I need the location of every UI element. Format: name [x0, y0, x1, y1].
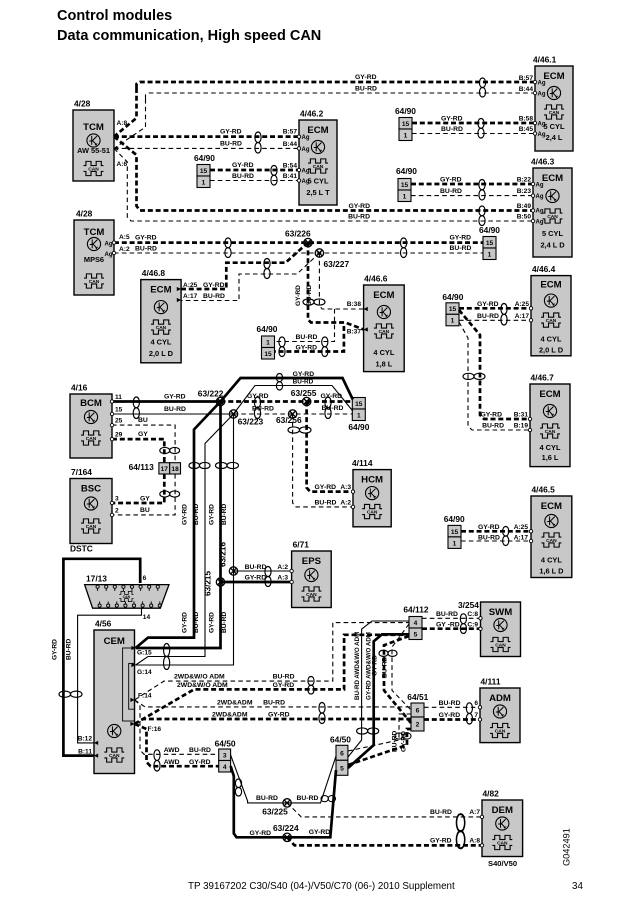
page number [572, 881, 583, 892]
svg-text:14: 14 [143, 614, 151, 621]
svg-text:5 CYL: 5 CYL [544, 122, 565, 131]
svg-text:S40/V50: S40/V50 [488, 859, 517, 868]
label 29 BCM [115, 432, 123, 439]
wire GY-RD top bus to ECM 4/46.1 B:57 [137, 82, 536, 88]
svg-text:BU-RD: BU-RD [440, 188, 462, 195]
svg-text:GY: GY [140, 496, 150, 503]
label BU-RD 64/90-3 [440, 188, 462, 195]
control module HCM 4/114 [352, 458, 391, 527]
svg-text:BU-RD: BU-RD [221, 504, 228, 525]
svg-text:BU-RD: BU-RD [293, 379, 314, 386]
wire BU-RD 63/223 diag to left vertical [136, 414, 234, 665]
svg-text:6: 6 [143, 575, 147, 582]
svg-text:CAN: CAN [156, 325, 167, 331]
label F:16 [148, 726, 162, 733]
svg-text:GY: GY [138, 431, 148, 438]
twisted pair after BCM [133, 397, 139, 419]
svg-text:BU-RD: BU-RD [189, 747, 211, 754]
svg-text:GY-RD: GY-RD [439, 712, 461, 719]
svg-text:B:31: B:31 [514, 412, 529, 419]
svg-text:15: 15 [115, 407, 123, 414]
svg-text:1: 1 [266, 339, 270, 346]
wire BU-RD AWD vertical to 64/112 pin4 [348, 621, 409, 757]
label BU-RD vertical upper 197.8 [193, 504, 200, 525]
svg-text:64/90: 64/90 [396, 166, 417, 176]
svg-text:TP 39167202 C30/S40 (04-)/V50/: TP 39167202 C30/S40 (04-)/V50/C70 (06-) … [188, 881, 455, 892]
svg-text:B:12: B:12 [78, 736, 93, 743]
label GY-RD v2 [273, 682, 295, 689]
wire GY-RD TCM A:8 to ECM 4/46.2 B:57 [114, 135, 299, 138]
svg-text:A:3: A:3 [340, 484, 351, 491]
label AWD 1 [164, 747, 180, 754]
svg-text:ECM: ECM [540, 280, 561, 291]
label BU-RD 63/225 r [297, 795, 319, 802]
control module ECM 4/46.3 [531, 157, 572, 258]
label BU-RD plateau [293, 379, 314, 386]
svg-text:2WD&W/O ADM: 2WD&W/O ADM [177, 682, 228, 689]
label 63/226 [285, 229, 311, 239]
twisted pair verticals right pair [216, 462, 239, 468]
wire BU 64/113 pin18 to BSC pin2 [112, 474, 175, 515]
17/13 pin 14 label [143, 614, 151, 621]
label GY-RD drop rot [295, 285, 302, 306]
wire BU-RD 64/50 to 64/51 bottom [348, 714, 411, 751]
label 2 BSC [115, 508, 119, 515]
label AWD 2 [164, 759, 180, 766]
svg-text:29: 29 [115, 432, 123, 439]
wire BU-RD F:14 2WDWOADM [135, 623, 409, 700]
svg-text:BU-RD: BU-RD [245, 564, 267, 571]
svg-text:GY-RD: GY-RD [296, 345, 318, 352]
svg-text:C:8: C:8 [467, 611, 478, 618]
svg-text:GY-RD: GY-RD [232, 162, 254, 169]
svg-text:B:57: B:57 [519, 75, 534, 82]
label BU-RD 4/46.5 [478, 535, 500, 542]
label Ag 4/46.3 186.5 [536, 183, 544, 189]
svg-text:4/56: 4/56 [95, 619, 112, 629]
connector 64/90 (to ECM 4/46.4) [442, 292, 463, 326]
twisted pair on plateau [276, 374, 282, 391]
svg-text:4/28: 4/28 [76, 209, 93, 219]
splice 63/226 [304, 238, 312, 246]
BSC caption DSTC [70, 544, 93, 554]
label F:14 [138, 693, 152, 700]
svg-text:4/46.6: 4/46.6 [364, 274, 388, 284]
svg-text:ECM: ECM [542, 173, 563, 184]
wire GY-RD 63/222 straight down [136, 402, 221, 649]
label A:17 4/46.8 [183, 293, 198, 300]
svg-text:BU-RD: BU-RD [193, 612, 200, 633]
svg-text:11: 11 [115, 394, 122, 401]
label A:8 TCM [117, 120, 128, 127]
CEM connector sub-block inner [129, 663, 135, 709]
svg-text:CAN: CAN [313, 164, 324, 170]
svg-text:Ag: Ag [302, 147, 310, 153]
svg-text:64/90: 64/90 [444, 514, 465, 524]
svg-text:A:17: A:17 [514, 535, 529, 542]
wire BU BCM pin25 to 64/113 pin18 [112, 425, 175, 463]
svg-text:BU-RD: BU-RD [441, 126, 463, 133]
label A:2 HCM [340, 500, 351, 507]
twisted pair before 4/46.1 top [479, 78, 485, 97]
label C:9 SWM [467, 622, 478, 629]
wire BU-RD 64/90 to ECM 4/46.1 B:45 [412, 133, 535, 135]
svg-text:1: 1 [202, 179, 206, 186]
pin contact circles [110, 80, 536, 847]
svg-text:GY -RD: GY -RD [436, 622, 460, 629]
svg-text:4 CYL: 4 CYL [150, 338, 171, 347]
svg-text:GY-RD: GY-RD [135, 235, 157, 242]
label GY-RD bus r [321, 393, 343, 400]
wire GY-RD 63/224 to DEM A:8 [287, 837, 482, 845]
wire BU-RD 63/223 straight down [136, 414, 234, 665]
svg-text:64/112: 64/112 [403, 605, 428, 615]
connector 64/113 [129, 462, 181, 474]
svg-text:7/164: 7/164 [71, 467, 92, 477]
control module ECM 4/46.2 [299, 109, 337, 206]
label BU-RD HCM [315, 500, 337, 507]
svg-text:BU-RD AWD&W/O ADM: BU-RD AWD&W/O ADM [354, 632, 361, 700]
label BU-RD SWM [436, 611, 458, 618]
twisted pair before 4/46.5 [503, 527, 509, 546]
svg-text:2,4 L D: 2,4 L D [540, 241, 565, 250]
label BU-RD TCM row [220, 141, 242, 148]
wire GY-RD 64/50 to 64/51 bottom [348, 729, 411, 765]
label BU-RD v1 [273, 674, 295, 681]
svg-text:CAN: CAN [109, 753, 120, 759]
wire BU-RD top bus to ECM 4/46.1 B:44 [146, 93, 536, 99]
label GY-RD bus l [247, 393, 269, 400]
label B:11 CEM [78, 749, 92, 756]
label B:37 4/46.6 [347, 329, 362, 336]
svg-text:CAN: CAN [547, 214, 558, 220]
label BU-RD 64/112 drop rot [382, 657, 389, 678]
wire GY-RD 64/90 to 4/46.5 A:25 [461, 530, 531, 533]
label GY-RD 4/46.5 [478, 524, 500, 531]
svg-text:2WD&ADM: 2WD&ADM [212, 712, 248, 719]
svg-text:HCM: HCM [361, 475, 383, 486]
svg-text:B:57: B:57 [283, 129, 298, 136]
svg-text:TCM: TCM [84, 227, 105, 238]
svg-text:18: 18 [171, 466, 179, 473]
label GY-RD left edge rot [52, 639, 59, 660]
svg-text:Ag: Ag [536, 194, 544, 200]
twisted pair on HCM drop [288, 427, 311, 433]
wire GY-RD F:16 2WDWOADM [135, 635, 409, 724]
svg-text:G042491: G042491 [562, 828, 572, 866]
svg-text:Ag: Ag [302, 179, 310, 185]
svg-text:DEM: DEM [492, 805, 513, 816]
label A:7 DEM [469, 809, 480, 816]
wire BU-RD 64/90 to 4/46.4 A:17 [459, 319, 531, 321]
wire GY-RD AWD vertical to 64/112 pin5 [348, 634, 409, 768]
svg-text:ECM: ECM [541, 501, 562, 512]
wire BU-RD 63/216 to EPS A:2 [234, 570, 292, 572]
label GY-RD AWDWOADM rot [366, 632, 373, 700]
svg-text:64/90: 64/90 [479, 225, 500, 235]
svg-text:BU-RD: BU-RD [296, 334, 318, 341]
label B:31 4/46.7 [514, 412, 529, 419]
svg-text:GY-RD: GY-RD [309, 829, 331, 836]
label 63/215 rot [204, 571, 213, 596]
svg-text:GY-RD: GY-RD [247, 393, 269, 400]
svg-text:1,8 L: 1,8 L [375, 360, 392, 369]
svg-text:63/226: 63/226 [285, 229, 311, 239]
svg-text:GY-RD: GY-RD [208, 504, 215, 525]
svg-text:GY-RD: GY-RD [164, 394, 186, 401]
DEM caption S40/V50 [488, 859, 517, 868]
svg-text:B:50: B:50 [517, 214, 532, 221]
svg-text:64/50: 64/50 [215, 739, 236, 749]
svg-text:AW 55-51: AW 55-51 [77, 146, 110, 155]
svg-text:A:17: A:17 [183, 293, 198, 300]
svg-text:Ag: Ag [538, 122, 546, 128]
label GY-RD 4/46.4 [477, 301, 499, 308]
svg-text:6: 6 [416, 708, 420, 715]
svg-text:4 CYL: 4 CYL [541, 556, 562, 565]
svg-text:34: 34 [572, 881, 583, 892]
svg-text:64/90: 64/90 [395, 106, 416, 116]
label 63/222 [198, 389, 224, 399]
connector 64/90 (to ECM 4/46.1) [395, 106, 416, 141]
svg-text:BU: BU [138, 417, 148, 424]
wire GY-RD F:16 AWD [135, 724, 219, 766]
splice 63/222 [216, 397, 224, 405]
wire GY-RD B:37 branch down to 64/90 [275, 326, 344, 352]
svg-text:15: 15 [486, 240, 494, 247]
svg-text:63/224: 63/224 [273, 823, 299, 833]
svg-text:64/90: 64/90 [257, 324, 278, 334]
wire BU-RD 64/90 to ECM 4/46.2 B:41 [210, 180, 299, 182]
svg-text:4 CYL: 4 CYL [541, 335, 562, 344]
svg-text:GY-RD: GY-RD [348, 203, 370, 210]
svg-text:4 CYL: 4 CYL [373, 348, 394, 357]
twisted pair on 4/46.8 branch [264, 259, 270, 279]
svg-text:Ag: Ag [538, 92, 546, 98]
svg-text:2WD&W/O ADM: 2WD&W/O ADM [174, 674, 225, 681]
control module ADM 4/111 [480, 677, 520, 743]
label A:17 4/46.5 [514, 535, 529, 542]
svg-text:BU-RD: BU-RD [193, 504, 200, 525]
label GY-RD vertical lower 186.3 [181, 612, 188, 633]
svg-text:63/222: 63/222 [198, 389, 224, 399]
svg-text:2WD&ADM: 2WD&ADM [217, 700, 253, 707]
svg-text:3: 3 [115, 496, 119, 503]
label B:41 4/46.2 [283, 173, 298, 180]
label C:8 SWM [467, 611, 478, 618]
svg-text:63/225: 63/225 [262, 807, 288, 817]
wire GY-RD 64/112 down to 64/51 [384, 636, 411, 723]
label A:17 4/46.4 [515, 313, 530, 320]
svg-text:A:17: A:17 [515, 313, 530, 320]
svg-text:MPS6: MPS6 [84, 255, 104, 264]
svg-text:4/114: 4/114 [352, 458, 373, 468]
label 63/256 [276, 415, 302, 425]
label B:45 4/46.1 [519, 126, 534, 133]
wire BU-RD F:14 AWD [135, 700, 219, 754]
twisted pair before 4/46.2 bottom [271, 166, 277, 186]
wire GY-RD trunk upper vertical [114, 88, 137, 137]
label BU-RD v3 [263, 700, 285, 707]
label B:54 4/46.2 [283, 163, 298, 170]
svg-text:1: 1 [404, 132, 408, 139]
svg-text:15: 15 [451, 529, 459, 536]
svg-text:BU-RD: BU-RD [439, 700, 461, 707]
svg-text:CEM: CEM [104, 636, 125, 647]
svg-text:BU-RD: BU-RD [315, 500, 337, 507]
svg-text:4/46.7: 4/46.7 [531, 373, 555, 383]
svg-text:BU-RD: BU-RD [203, 293, 225, 300]
label BU-RD below 64/51 rot [392, 731, 399, 752]
label Ag 4/46.2 183 [302, 179, 310, 185]
svg-text:B:58: B:58 [519, 116, 534, 123]
wire BU-RD 63/225 to DEM A:7 [287, 803, 482, 817]
twisted pair on bottom diagonals [235, 779, 241, 796]
label B:44 4/46.2 [283, 141, 298, 148]
svg-text:4/46.8: 4/46.8 [142, 268, 166, 278]
svg-text:GY-RD: GY-RD [273, 682, 295, 689]
svg-text:GY-RD: GY-RD [208, 612, 215, 633]
control module ECM 4/46.7 [530, 373, 570, 467]
connector 64/90 (end of TCM MPS6 pair) [479, 225, 500, 260]
svg-text:B:45: B:45 [519, 126, 534, 133]
label A:2 TCM2 [119, 246, 130, 253]
wire GY-RD 64/90 to 4/46.4 A:25 [459, 307, 531, 310]
label A:25 4/46.4 [515, 301, 530, 308]
label GY-RD 64/90-1 [441, 116, 463, 123]
twisted pair on 2WDADM [319, 703, 325, 724]
label GY-RD vertical upper 213.3 [208, 504, 215, 525]
svg-text:15: 15 [402, 121, 410, 128]
label BU-RD bus l [252, 406, 274, 413]
svg-text:4: 4 [223, 764, 227, 771]
label BU-RD B:50 run [348, 214, 370, 221]
svg-text:GY-RD: GY-RD [245, 575, 267, 582]
connector 64/50 (right) [330, 735, 351, 776]
label BU-RD 4/46.4 [477, 313, 499, 320]
wire BU-RD 64/90 to ECM 4/46.3 B:23 [411, 195, 533, 197]
svg-text:2,0 L D: 2,0 L D [539, 346, 564, 355]
wire BU-RD trunk upper vertical [114, 99, 146, 148]
svg-text:GY-RD: GY-RD [52, 639, 59, 660]
svg-text:BU-RD: BU-RD [164, 406, 186, 413]
wire GY-RD 64/90 to ECM 4/46.1 B:58 [412, 122, 535, 125]
label GY-RD 64/112 drop rot [372, 655, 379, 676]
label 63/255 [291, 388, 317, 398]
svg-text:ADM: ADM [489, 693, 511, 704]
label A:8 DEM [469, 838, 480, 845]
label B:57 4/46.1 [519, 75, 534, 82]
svg-text:CAN: CAN [545, 429, 556, 435]
svg-text:ECM: ECM [307, 125, 328, 136]
label 11 BCM [115, 394, 122, 401]
svg-text:EPS: EPS [302, 556, 322, 567]
svg-text:2,5 L T: 2,5 L T [306, 188, 330, 197]
wire BU-RD 64/51 to ADM pin6 [424, 706, 480, 708]
svg-text:Control modules: Control modules [57, 8, 172, 24]
label 7 ADM [474, 712, 478, 719]
twisted pair above 64/113 [160, 447, 180, 453]
svg-text:6/71: 6/71 [293, 540, 310, 550]
label B:22 4/46.3 [517, 177, 532, 184]
wire BU-RD trunk lower vertical [114, 148, 533, 221]
wire GY-RD trunk lower vertical [114, 137, 533, 211]
label A:6 TCM [117, 161, 128, 168]
svg-text:B:38: B:38 [347, 301, 362, 308]
svg-text:A:5: A:5 [119, 234, 130, 241]
twisted pair dashed bus right [325, 397, 331, 419]
svg-text:Ag: Ag [538, 132, 546, 138]
svg-text:B:44: B:44 [283, 141, 298, 148]
wire GY-RD F:16 2WDADM [135, 719, 411, 724]
label Ag 4/46.1 136 [538, 132, 546, 138]
svg-text:GY-RD: GY-RD [181, 612, 188, 633]
connector 64/90 (to ECM 4/46.2) [194, 153, 215, 188]
connector 64/51 [407, 692, 428, 731]
twisted pair on 64/112 drop [379, 650, 397, 656]
svg-text:GY-RD: GY-RD [440, 177, 462, 184]
wire GY-RD 63/255 to HCM A:3 [307, 402, 353, 492]
svg-text:5: 5 [414, 631, 418, 638]
label GY-RD 63/224 r [309, 829, 331, 836]
svg-text:GY-RD: GY-RD [181, 504, 188, 525]
wire GY-RD 64/50-left to 63/224 to 64/50-right [231, 766, 336, 837]
svg-text:GY-RD: GY-RD [189, 759, 211, 766]
svg-text:1,6 L D: 1,6 L D [539, 567, 564, 576]
label 63/223 [238, 417, 264, 427]
svg-text:4: 4 [414, 620, 418, 627]
label A:25 4/46.5 [514, 524, 529, 531]
label B:44 4/46.1 [519, 86, 534, 93]
twisted pair below 64/51 [395, 733, 411, 739]
svg-text:5 CYL: 5 CYL [308, 177, 329, 186]
svg-text:GY-RD: GY-RD [220, 129, 242, 136]
svg-text:CAN: CAN [546, 318, 557, 324]
twisted pair before 4/46.1 bottom [478, 119, 484, 139]
twisted pair before 4/46.3 top [479, 180, 485, 201]
svg-text:CAN: CAN [495, 728, 506, 734]
svg-text:63/216: 63/216 [219, 542, 228, 567]
svg-text:A:7: A:7 [469, 809, 480, 816]
label GY-RD 4/46.8 [203, 282, 225, 289]
label GY-RD 4/46.7 [480, 412, 502, 419]
svg-text:BU-RD: BU-RD [450, 245, 472, 252]
label 63/225 [262, 807, 288, 817]
svg-text:2,4 L: 2,4 L [546, 133, 563, 142]
twisted pair on bottom right diagonals [321, 796, 336, 802]
label A:3 HCM [340, 484, 351, 491]
twisted pair on 4/46.6 lower branch [322, 337, 328, 357]
wire GY-RD 63/215 to EPS A:3 [221, 581, 292, 584]
label Ag 4/46.1 84.5 [538, 81, 546, 87]
svg-text:B:49: B:49 [517, 203, 532, 210]
label Ag 4/46.3 212.5 [536, 209, 544, 215]
svg-text:BU-RD: BU-RD [297, 795, 319, 802]
svg-text:Ag: Ag [105, 252, 113, 258]
svg-text:ECM: ECM [543, 71, 564, 82]
svg-text:GY-RD: GY-RD [372, 655, 379, 676]
label BU-RD A:2 [135, 246, 157, 253]
control module ECM 4/46.6 [364, 274, 405, 372]
svg-text:GY-RD: GY-RD [293, 371, 315, 378]
SWM designator 3/254 [458, 600, 479, 610]
svg-text:F:14: F:14 [138, 693, 152, 700]
label GY-RD top bus [355, 74, 377, 81]
label BU-RD ADM [439, 700, 461, 707]
label GY-RD BCM [164, 394, 186, 401]
label 6 ADM [474, 700, 478, 707]
control module EPS 6/71 [292, 540, 332, 608]
